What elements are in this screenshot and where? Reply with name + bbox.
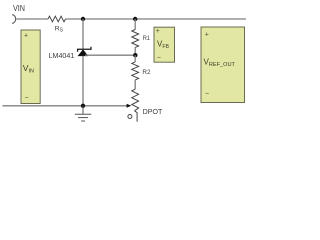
svg-text:−: − <box>25 95 29 102</box>
svg-text:LM4041: LM4041 <box>49 51 75 60</box>
node junction ground <box>81 104 85 108</box>
node junction R1 top <box>133 17 137 21</box>
svg-text:VIN: VIN <box>13 4 25 13</box>
resistor R2 <box>132 62 139 80</box>
wire FB (diode to R1/R2 junction) <box>85 54 135 56</box>
resistor RS <box>48 16 66 22</box>
input connector VIN <box>12 15 16 24</box>
output box VREF_OUT <box>201 27 245 103</box>
wire R1 top lead <box>134 19 136 30</box>
wire diode anode down to ground rail <box>82 56 84 106</box>
wire R2 top lead <box>134 55 136 62</box>
node junction at Rs/diode <box>81 17 85 21</box>
node junction R1/R2/FB <box>133 53 137 57</box>
wire bottom ground rail <box>3 105 128 107</box>
wire R1 bottom lead <box>134 47 136 55</box>
ground <box>82 106 84 114</box>
svg-text:DPOT: DPOT <box>143 109 163 116</box>
svg-text:R2: R2 <box>142 69 150 76</box>
svg-text:−: − <box>205 91 209 98</box>
zener diode LM4041 cathode bar <box>78 47 91 52</box>
wire R2 to DPOT <box>134 80 136 89</box>
wiper arrow into DPOT <box>127 104 132 108</box>
terminal open circle DPOT <box>128 115 132 119</box>
resistor R1 <box>132 30 139 48</box>
potentiometer DPOT <box>132 89 139 111</box>
zener diode LM4041 triangle <box>78 50 88 56</box>
wire DPOT bottom lead <box>135 111 138 122</box>
svg-text:−: − <box>157 55 161 62</box>
wire top rail right (Rs to right edge) <box>66 18 247 20</box>
source box VIN <box>21 30 40 104</box>
wire diode cathode up to rail <box>82 19 84 49</box>
meter box VFB <box>154 27 175 62</box>
svg-text:R1: R1 <box>143 35 150 42</box>
svg-text:+: + <box>24 33 28 40</box>
svg-text:+: + <box>205 31 209 38</box>
svg-text:+: + <box>156 28 160 35</box>
wire top rail left (connector to Rs) <box>17 18 48 20</box>
